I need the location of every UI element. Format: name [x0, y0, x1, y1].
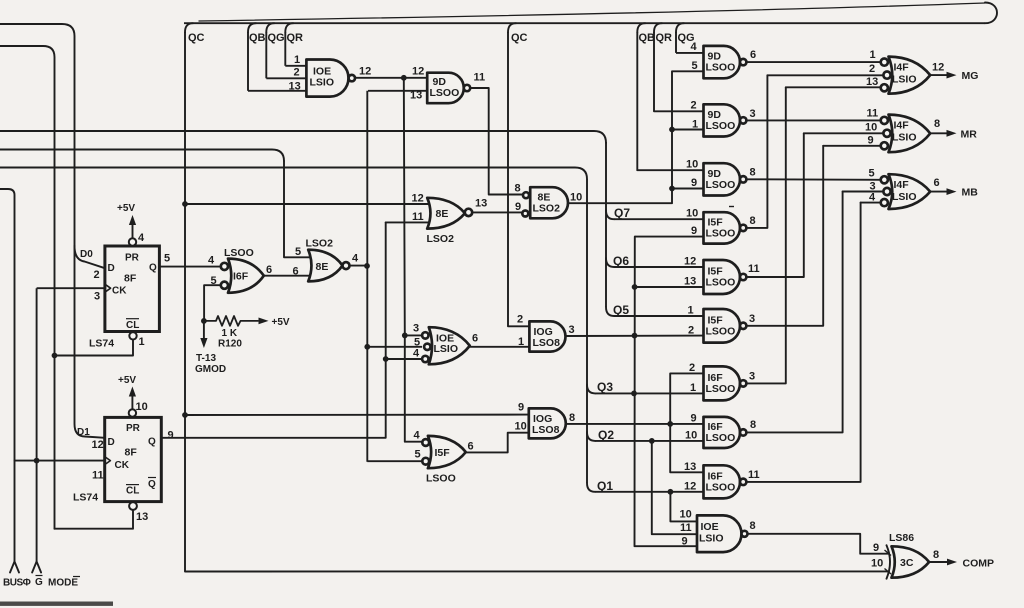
wire 9D-2 pin2 input [654, 110, 704, 112]
flip-flop U2 Qbar text [148, 478, 156, 491]
junction G-chain at 15F2 pin13 [632, 284, 638, 290]
pin 9 label (14F-2) [868, 135, 874, 147]
svg-text:12: 12 [412, 193, 424, 205]
gate 8E-c input bubble pin9 [522, 211, 528, 217]
svg-text:10: 10 [515, 421, 527, 433]
pin 5 label (FF1 Q) [164, 253, 170, 265]
gate 3C LS86 input arc [887, 545, 891, 579]
svg-text:QR: QR [287, 32, 304, 44]
flip-flop U1 D text [108, 263, 115, 274]
gate 10E-c LS10 text [699, 533, 724, 545]
flip-flop U2 D text [108, 437, 115, 448]
svg-text:Q: Q [149, 263, 157, 274]
svg-text:LSOO: LSOO [706, 227, 736, 239]
flip-flop U1 8F text [124, 273, 137, 285]
svg-text:4: 4 [352, 253, 359, 265]
gate 10E-a 10E text [313, 66, 331, 78]
flip-flop U2 CL bubble [129, 502, 137, 510]
gate 9D-a LS00 text [430, 87, 460, 99]
node Q6 label [613, 254, 629, 268]
wire 8E-a pin12 input [185, 203, 430, 205]
pin 9 label (FF2 Q) [168, 430, 174, 442]
pin 1 label (14F-1) [870, 49, 876, 61]
svg-text:I4F: I4F [894, 62, 910, 74]
junction QC at 8E-a pin12 [182, 201, 188, 207]
wire 9D-3 pin9 stub [672, 188, 704, 190]
wire 10E-a pin2 input [266, 77, 306, 79]
pin 10 label (8E-c out) [570, 192, 582, 204]
gate 10G-a 10G text [534, 326, 553, 338]
wire 14F-2 pin10 input [804, 132, 883, 134]
junction 10G-b net at vertical [667, 421, 673, 427]
junction G-chain at Q3 row [631, 391, 637, 397]
wire QC (left) vertical [184, 32, 186, 572]
junction 8E-c net at 9D3 pin9 [669, 186, 675, 192]
wire 10E-b pin3 input [405, 334, 422, 336]
svg-text:Q: Q [148, 437, 156, 448]
pin 9 label (15F-1) [691, 225, 697, 237]
pin 10 label (FF2 PR) [136, 401, 148, 413]
svg-text:13: 13 [289, 81, 301, 93]
wire 8E-b output 4 [350, 265, 368, 267]
wire Q1 to 16F3 pin12 [595, 491, 704, 493]
pin 12 label (8E-a) [412, 193, 424, 205]
svg-text:+5V: +5V [272, 317, 290, 328]
svg-text:5: 5 [295, 246, 301, 258]
node Q6 breakout [606, 258, 614, 267]
svg-text:10: 10 [570, 192, 582, 204]
wire 16F-a pin5 input [204, 285, 221, 321]
wire QG (left) vertical [265, 32, 267, 78]
svg-text:12: 12 [684, 481, 696, 493]
pin 9 label (10G-b) [518, 402, 524, 414]
pin 11 label (10E-c) [680, 522, 692, 534]
pin 9 label (9D-3) [691, 177, 697, 189]
pin 10 label (9D-3) [686, 159, 698, 171]
svg-text:11: 11 [474, 72, 486, 84]
svg-text:T-13: T-13 [196, 353, 216, 364]
pin 6 label (16F-a out) [266, 264, 272, 276]
svg-text:6: 6 [266, 264, 272, 276]
wire QC long bottom line [185, 570, 889, 572]
pin 4 label (8E-b out) [352, 253, 359, 265]
scan artifact dark bar [0, 602, 113, 606]
wire FF1 CL to clear net [55, 340, 134, 356]
flip-flop U1 PR text [125, 253, 140, 264]
junction FF2-Q net at 10E2 pin4 row [383, 356, 389, 362]
svg-text:4: 4 [208, 255, 215, 267]
wire 15F-1 output 8 [746, 75, 767, 228]
gate 14F-1 LS10 body [889, 57, 931, 94]
pin 8 label (8E-c) [515, 183, 521, 195]
wire Q1 branch to 10E3 pin10 [670, 492, 697, 522]
pin 8 label (15F-1 out) [750, 215, 756, 227]
wire 10G-a output 3 [566, 335, 704, 337]
svg-text:LS86: LS86 [889, 532, 914, 544]
svg-text:13: 13 [410, 90, 422, 102]
power +5V arrow (R120) [259, 317, 290, 328]
gate 10G-b LS08 body [529, 408, 566, 438]
svg-text:2: 2 [691, 100, 697, 112]
wire 9D-1 pin4 input [676, 52, 704, 54]
gate 8E-a 8E text [436, 208, 449, 220]
svg-text:8: 8 [934, 118, 940, 130]
wire QG (right) vertical [675, 32, 677, 53]
pin 2 label (FF1 D) [94, 269, 100, 281]
gate 8E-c LS02 body [530, 187, 568, 218]
gate 10E-b 10E text [436, 333, 454, 345]
pin 4 label (14F-3) [869, 192, 876, 204]
wire Q2 to 16F2 pin10 [595, 440, 704, 442]
junction clear-net at FF1 CL [52, 353, 58, 359]
pin 9 label (10E-c) [682, 536, 688, 548]
svg-text:5: 5 [415, 449, 421, 461]
svg-text:LSOO: LSOO [430, 87, 460, 99]
svg-text:6: 6 [934, 177, 940, 189]
pin 12 label (9D-a) [412, 66, 424, 78]
gate 10E-c 10E text [701, 521, 719, 533]
svg-text:QC: QC [188, 32, 205, 44]
svg-text:13: 13 [136, 511, 148, 523]
gate 10E-a LS10 body [306, 60, 348, 97]
net label T-13 [196, 353, 216, 364]
svg-text:3: 3 [750, 108, 756, 120]
power +5V arrow (FF1 PR) [117, 203, 136, 238]
wire 16F-a output 6 [264, 275, 312, 277]
svg-text:12: 12 [684, 256, 696, 268]
junction 10E-a net at 10E-b pin3 [402, 333, 408, 339]
svg-text:1: 1 [518, 336, 524, 348]
svg-text:10: 10 [685, 430, 697, 442]
flip-flop U2 8F text [125, 447, 138, 459]
node QB label (right) [639, 32, 656, 44]
pin 11 label (15F-2 out) [748, 263, 760, 275]
pin 2 label (10G-a) [517, 314, 523, 326]
wire 9D-2 output to 14F-2 pin11 [746, 119, 880, 121]
svg-text:I4F: I4F [894, 120, 910, 132]
wire D1 terminal curve [75, 246, 105, 438]
svg-text:9: 9 [691, 177, 697, 189]
svg-text:3: 3 [749, 313, 755, 325]
net label BUSPHI [3, 578, 31, 589]
gate 8E-b 8E text [316, 261, 329, 273]
svg-text:10: 10 [686, 208, 698, 220]
pin 13 label (10E-a) [289, 81, 301, 93]
pin 8 label (10E-c out) [750, 520, 756, 532]
svg-text:8: 8 [750, 167, 756, 179]
svg-text:LSO8: LSO8 [533, 337, 561, 349]
pin 10 label (3C) [871, 558, 883, 570]
pin 8 label (16F-2 out) [750, 419, 756, 431]
flip-flop U2 8F LS74 box [105, 417, 162, 501]
net label GMOD [195, 364, 226, 375]
wire top bus return line [199, 3, 985, 21]
svg-text:10: 10 [686, 159, 698, 171]
wire 15F-d pin5 input [367, 460, 422, 462]
svg-text:1: 1 [690, 382, 696, 394]
node QB label (left) [249, 32, 266, 44]
svg-text:1: 1 [294, 54, 300, 66]
svg-text:1: 1 [139, 336, 145, 348]
wire D0 branch curve [75, 246, 105, 268]
wire FF1 Q output [159, 266, 221, 268]
svg-text:CL: CL [126, 486, 139, 497]
node D0 label [80, 249, 93, 260]
wire bus1 from left edge [0, 131, 606, 143]
svg-text:LSIO: LSIO [892, 74, 917, 86]
pin 8 label (14F-2 out) [934, 118, 940, 130]
svg-text:D: D [108, 437, 115, 448]
wire MR output arrow [930, 130, 956, 137]
pin 2 label (15F-3) [688, 325, 694, 337]
gate 15F-d bubble pin4 [422, 439, 429, 446]
flip-flop U1 8F LS74 box [105, 246, 159, 332]
node D1 label [77, 427, 90, 438]
pin 5 label (9D-1) [692, 60, 698, 72]
wire 10E-a pin13 input [248, 90, 306, 92]
resistor R120 [204, 316, 258, 326]
wire top bus U-turn right end [985, 3, 997, 24]
flip-flop U1 LS74 label [89, 338, 114, 350]
flip-flop U1 PR bubble [129, 238, 136, 245]
svg-text:G: G [35, 577, 43, 588]
pin 3 label (10G-a out) [569, 324, 575, 336]
pin 3 label (16F-1 out) [749, 371, 755, 383]
wire BUSPHI to FF2 CK [15, 460, 105, 462]
svg-text:12: 12 [412, 66, 424, 78]
svg-text:8F: 8F [125, 447, 138, 459]
junction G-chain at 10G-a out [632, 333, 638, 339]
wire 15F2 pin13 stub [635, 286, 704, 288]
gate 8E-b LSO2 label [306, 238, 334, 250]
svg-text:LSOO: LSOO [706, 62, 736, 74]
svg-text:9: 9 [168, 430, 174, 442]
svg-text:8E: 8E [316, 261, 329, 273]
pin 6 label (15F-d out) [468, 441, 474, 453]
wire vertical A (bus1 drop) [605, 142, 607, 307]
svg-text:11: 11 [748, 469, 760, 481]
svg-text:LSIO: LSIO [699, 533, 724, 545]
wire 16F1 pin2 stub [670, 372, 703, 374]
svg-text:11: 11 [748, 263, 760, 275]
pin 12 label (16F-3) [684, 481, 696, 493]
svg-text:10: 10 [871, 558, 883, 570]
junction Q2 branch [649, 438, 655, 444]
svg-text:12: 12 [932, 62, 944, 74]
svg-text:LSO8: LSO8 [532, 424, 560, 436]
wire MG output arrow [930, 72, 956, 79]
svg-text:MODE: MODE [48, 578, 78, 589]
svg-text:MG: MG [962, 70, 979, 82]
off-page connector BUSPHI chevron [10, 562, 19, 573]
svg-text:BUSΦ: BUSΦ [3, 578, 31, 589]
svg-text:3: 3 [569, 324, 575, 336]
flip-flop U2 PR bubble [129, 409, 136, 416]
svg-text:6: 6 [472, 333, 478, 345]
pin 6 label (8E-b) [293, 266, 299, 278]
pin 3 label (15F-3 out) [749, 313, 755, 325]
svg-text:3: 3 [749, 371, 755, 383]
pin 5 label (16F-a) [211, 275, 217, 287]
wire bus3 from left edge [0, 168, 587, 180]
net label G-bar MODE [35, 576, 80, 589]
svg-text:LS74: LS74 [89, 338, 114, 350]
node QB (left) breakout [248, 23, 256, 32]
svg-text:GMOD: GMOD [195, 364, 226, 375]
gate 9D-a LS00 body [427, 73, 464, 104]
wire 10E-b output 6 [470, 346, 530, 348]
pin 13 label (9D-a) [410, 90, 422, 102]
flip-flop U2 CK text [115, 460, 130, 471]
flip-flop U2 LS74 label [73, 492, 98, 504]
svg-text:10: 10 [680, 509, 692, 521]
node QR label (left) [287, 32, 304, 44]
wire top bus line [184, 22, 985, 24]
junction compare-net at 8E-b out [364, 263, 370, 269]
flip-flop U1 CK wedge [105, 284, 111, 292]
svg-text:1: 1 [692, 119, 698, 131]
svg-text:5: 5 [692, 60, 698, 72]
gate 15F-d bubble pin5 [422, 458, 429, 465]
pin 11 label (9D-a out) [474, 72, 486, 84]
wire 14F-1 pin2 input [767, 74, 883, 76]
flip-flop U2 CK wedge [105, 457, 111, 465]
flip-flop U2 Q text [148, 437, 156, 448]
node QG label (left) [268, 32, 285, 44]
net label MR [961, 129, 978, 141]
node QG (right) breakout [676, 23, 684, 32]
svg-text:8: 8 [569, 412, 575, 424]
wire 16F-3 output 11 [746, 203, 860, 482]
wire 10E-a output 12 [355, 77, 427, 79]
pin 8 label (10G-b out) [569, 412, 575, 424]
node QR label (right) [656, 32, 673, 44]
gate 16F-1 LS00 body [704, 366, 747, 400]
svg-text:6: 6 [468, 441, 474, 453]
pin 12 label (10E-a out) [359, 66, 371, 78]
svg-text:COMP: COMP [963, 558, 995, 570]
pin 2 label (16F-1) [689, 362, 695, 374]
svg-text:QB: QB [249, 32, 266, 44]
wire QB (left) vertical [247, 32, 249, 91]
wire 9D-3 output to 14F-3 pin5 [746, 178, 880, 181]
svg-text:9: 9 [515, 201, 521, 213]
svg-text:LSOO: LSOO [426, 473, 456, 485]
wire D-data entry from left edge [0, 24, 75, 246]
svg-text:D: D [108, 263, 115, 274]
wire 10E-c output 8 [748, 534, 890, 554]
wire 8E-a output 13 [472, 211, 522, 213]
gate 10E-b LS10 body [429, 327, 470, 364]
wire Q2 branch to 10E3 pin11 [652, 441, 697, 534]
svg-text:QR: QR [656, 32, 673, 44]
gate 16F-3 LS00 body [704, 465, 747, 498]
pin 10 label (10G-b) [515, 421, 527, 433]
node Q2 label [598, 428, 614, 442]
node Q3 breakout [587, 384, 595, 393]
svg-text:8E: 8E [436, 208, 449, 220]
svg-text:8F: 8F [124, 273, 137, 285]
pin 3 label (14F-3) [870, 181, 876, 193]
svg-text:CL: CL [126, 320, 139, 331]
power +5V arrow (FF2 PR) [118, 375, 136, 409]
wire 15F-2 output 11 [746, 133, 803, 277]
pin 4 label (16F-a) [208, 255, 215, 267]
junction Q1 branch [668, 489, 674, 495]
svg-text:LSO2: LSO2 [306, 238, 334, 250]
svg-text:Q5: Q5 [613, 303, 629, 317]
svg-text:LSOO: LSOO [706, 179, 736, 191]
pin 8 label (9D-3 out) [750, 167, 756, 179]
svg-text:PR: PR [126, 423, 141, 434]
junction 10E-a output net [401, 75, 407, 81]
node Q5 label [613, 303, 629, 317]
wire vertical B (bus3 drop) [586, 179, 588, 483]
flip-flop U2 PR text [126, 423, 141, 434]
flip-flop U2 CL text [126, 485, 139, 497]
svg-text:CK: CK [112, 286, 127, 297]
svg-text:I4F: I4F [894, 179, 910, 191]
node QC label (right) [511, 32, 528, 44]
svg-text:LSOO: LSOO [706, 325, 736, 337]
svg-text:2: 2 [869, 63, 875, 75]
node Q7 label [614, 206, 630, 220]
pin 2 label (9D-2) [691, 100, 697, 112]
svg-text:D0: D0 [80, 249, 93, 260]
gate 14F-2 LS10 body [889, 115, 931, 153]
svg-text:MR: MR [961, 129, 978, 141]
pin 5 label (10E-b) [414, 337, 420, 349]
svg-text:LSOO: LSOO [706, 277, 736, 289]
svg-text:MB: MB [962, 187, 979, 199]
pin 6 label (14F-3 out) [934, 177, 940, 189]
svg-text:1: 1 [688, 305, 694, 317]
pin 11 label (14F-2) [867, 108, 879, 120]
svg-text:10: 10 [865, 122, 877, 134]
svg-text:4: 4 [414, 430, 421, 442]
gate 9D-2 LS00 body [704, 104, 747, 136]
gate 8E-c input bubble pin8 [523, 192, 529, 198]
wire G-chain vertical [635, 237, 698, 547]
net label MB [962, 187, 979, 199]
pin 13 label (15F-2) [684, 276, 696, 288]
svg-text:13: 13 [684, 461, 696, 473]
svg-text:CK: CK [115, 460, 130, 471]
svg-text:8: 8 [933, 549, 939, 561]
pin 4 label (9D-1) [691, 41, 698, 53]
svg-text:LSIO: LSIO [434, 343, 459, 355]
svg-text:I6F: I6F [233, 271, 249, 283]
svg-text:LSOO: LSOO [706, 383, 736, 395]
svg-text:LSOO: LSOO [706, 481, 736, 493]
gate 14F-3 bubble pin4 [881, 199, 888, 206]
wire 9D-a pin13 net vertical (compare net) [366, 91, 368, 462]
pin 1 label (10E-a) [294, 54, 300, 66]
svg-text:13: 13 [866, 76, 878, 88]
pin 6 label (9D-1 out) [750, 49, 756, 61]
gate 3C LS86 input slashes [885, 550, 892, 574]
flip-flop U1 Q text [149, 263, 157, 274]
wire 8E-c output 10 to 9D column [568, 71, 704, 203]
pin 3 label (9D-2 out) [750, 108, 756, 120]
wire CL entry from left edge [0, 46, 55, 529]
svg-text:11: 11 [867, 108, 879, 120]
svg-text:5: 5 [164, 253, 170, 265]
wire 10G-b net vertical upper [670, 373, 703, 472]
pin 13 label (14F-1) [866, 76, 878, 88]
svg-text:13: 13 [475, 198, 487, 210]
wire 16F-1 output 3 [746, 87, 785, 383]
